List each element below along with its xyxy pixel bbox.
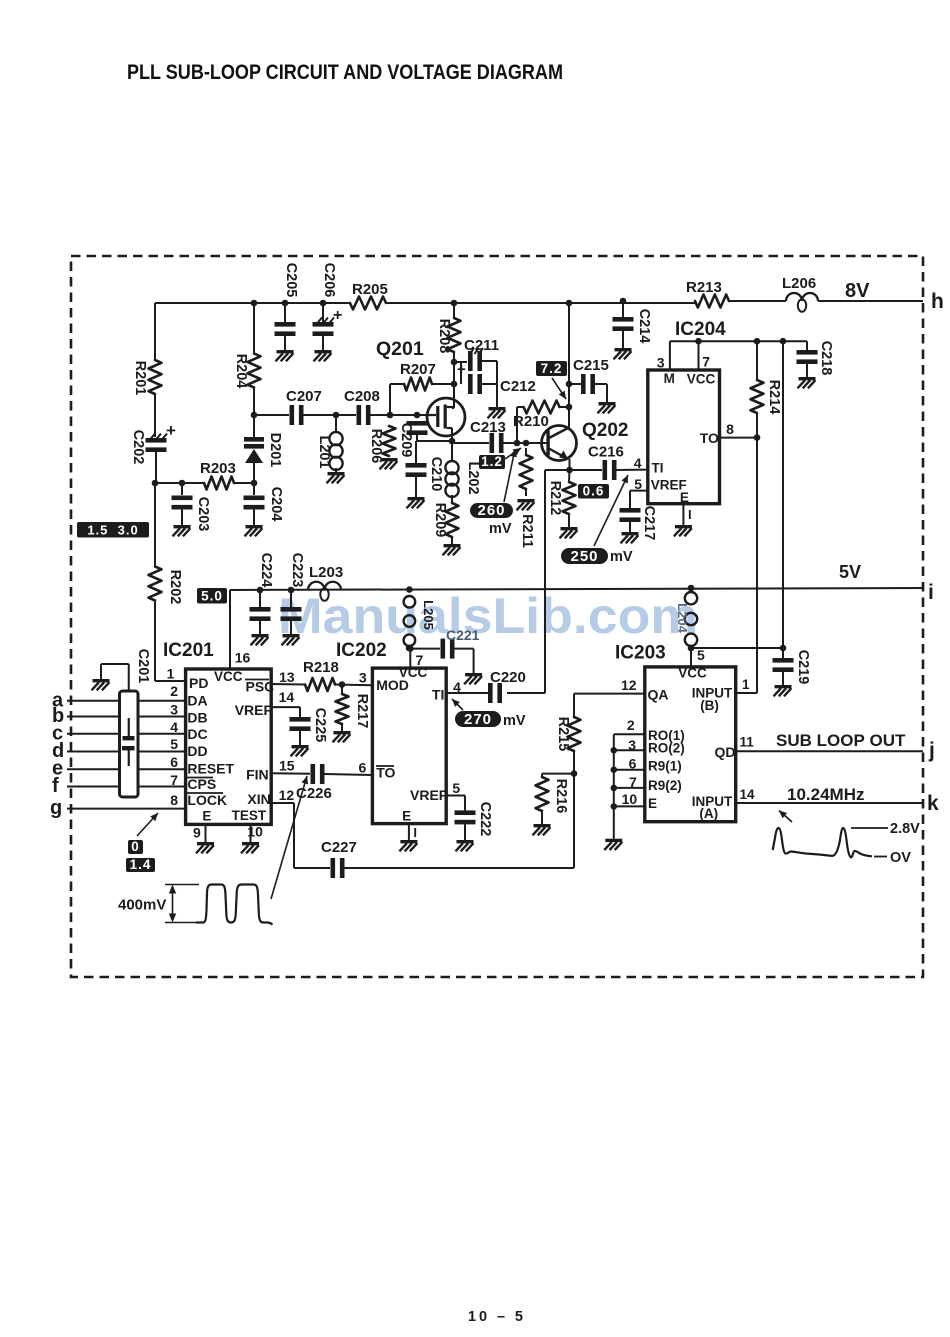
svg-text:C212: C212: [500, 378, 536, 395]
svg-text:E: E: [680, 490, 689, 505]
svg-text:PSC: PSC: [246, 679, 275, 695]
svg-text:mV: mV: [610, 549, 633, 565]
svg-text:2: 2: [627, 717, 635, 733]
svg-text:10: 10: [622, 791, 638, 807]
svg-text:C225: C225: [312, 708, 328, 743]
svg-text:3: 3: [170, 702, 178, 718]
svg-text:5: 5: [170, 736, 178, 752]
svg-text:k: k: [927, 792, 939, 815]
svg-text:C222: C222: [477, 802, 493, 837]
svg-text:1.4: 1.4: [130, 857, 152, 872]
svg-text:1.5 3.0: 1.5 3.0: [87, 522, 138, 537]
svg-text:VCC: VCC: [687, 372, 716, 387]
svg-text:7: 7: [702, 353, 710, 369]
svg-text:E: E: [202, 809, 211, 824]
svg-text:+: +: [333, 307, 342, 324]
svg-text:C221: C221: [446, 627, 480, 643]
svg-text:(A): (A): [699, 806, 718, 821]
svg-text:2.8V: 2.8V: [890, 821, 920, 837]
svg-text:DC: DC: [187, 726, 207, 742]
svg-text:j: j: [928, 739, 935, 762]
svg-text:R9(1): R9(1): [648, 759, 682, 774]
svg-text:3: 3: [359, 669, 367, 685]
svg-text:R212: R212: [547, 481, 563, 516]
svg-text:16: 16: [235, 650, 251, 666]
svg-text:R215: R215: [555, 717, 571, 752]
svg-text:R216: R216: [553, 779, 569, 814]
svg-text:C224: C224: [258, 553, 274, 588]
svg-text:QD: QD: [715, 744, 736, 760]
svg-text:C218: C218: [818, 341, 834, 376]
svg-text:C214: C214: [636, 309, 652, 344]
svg-text:TI: TI: [652, 461, 664, 476]
svg-text:C204: C204: [268, 487, 284, 522]
svg-text:C219: C219: [795, 650, 811, 685]
svg-text:6: 6: [170, 754, 178, 770]
svg-text:R207: R207: [400, 361, 436, 378]
svg-text:C206: C206: [321, 263, 337, 298]
svg-text:DB: DB: [187, 710, 207, 726]
svg-text:1: 1: [167, 666, 175, 682]
svg-text:VREF: VREF: [410, 787, 448, 803]
svg-text:R208: R208: [436, 319, 452, 354]
svg-text:(B): (B): [700, 698, 719, 713]
svg-text:PD: PD: [189, 675, 208, 691]
svg-text:FIN: FIN: [246, 767, 269, 783]
svg-text:R211: R211: [519, 514, 535, 548]
svg-text:DD: DD: [187, 743, 207, 759]
svg-text:mV: mV: [489, 521, 512, 537]
svg-text:C203: C203: [195, 497, 211, 532]
svg-text:Q201: Q201: [376, 338, 424, 360]
svg-text:C207: C207: [286, 388, 322, 405]
svg-text:8: 8: [170, 792, 178, 808]
svg-text:mV: mV: [503, 713, 526, 729]
svg-text:XIN: XIN: [247, 791, 270, 807]
svg-text:+: +: [166, 421, 176, 440]
svg-text:R203: R203: [200, 460, 236, 477]
svg-text:4: 4: [453, 679, 461, 695]
svg-text:12: 12: [621, 677, 637, 693]
svg-text:L203: L203: [309, 564, 343, 581]
svg-text:250: 250: [570, 548, 598, 565]
svg-text:C201: C201: [135, 649, 151, 684]
svg-text:R218: R218: [303, 659, 339, 676]
svg-text:C216: C216: [588, 444, 624, 461]
svg-text:8V: 8V: [845, 280, 870, 302]
svg-text:L206: L206: [782, 275, 816, 292]
svg-text:R210: R210: [513, 413, 549, 430]
svg-text:7: 7: [416, 652, 424, 668]
svg-text:I: I: [688, 507, 692, 522]
svg-text:5: 5: [697, 647, 705, 663]
svg-text:IC204: IC204: [675, 319, 726, 340]
svg-text:R9(2): R9(2): [648, 778, 682, 793]
svg-text:260: 260: [477, 502, 505, 519]
svg-text:C217: C217: [641, 506, 657, 541]
svg-text:VCC: VCC: [214, 669, 243, 684]
svg-text:C213: C213: [470, 419, 506, 436]
svg-text:L205: L205: [421, 600, 436, 630]
svg-text:1: 1: [742, 677, 750, 692]
svg-text:R204: R204: [233, 354, 249, 389]
svg-text:13: 13: [279, 669, 295, 685]
svg-text:9: 9: [193, 824, 201, 840]
svg-text:3: 3: [657, 355, 665, 371]
svg-text:5.0: 5.0: [201, 588, 223, 603]
svg-text:VREF: VREF: [235, 702, 273, 718]
svg-text:RO(2): RO(2): [648, 741, 685, 756]
svg-text:14: 14: [279, 689, 295, 705]
svg-text:TI: TI: [432, 687, 444, 703]
svg-text:L201: L201: [316, 435, 332, 468]
svg-text:IC202: IC202: [336, 640, 387, 661]
svg-text:C220: C220: [490, 669, 526, 686]
svg-text:270: 270: [464, 711, 492, 728]
svg-text:+: +: [457, 361, 466, 378]
svg-text:0: 0: [131, 839, 140, 854]
svg-text:L204: L204: [675, 603, 690, 633]
svg-text:CPS: CPS: [187, 776, 216, 792]
svg-text:VCC: VCC: [678, 665, 707, 680]
svg-text:TO: TO: [700, 430, 719, 446]
svg-text:5V: 5V: [839, 562, 861, 582]
svg-text:Q202: Q202: [582, 420, 628, 441]
svg-text:SUB LOOP OUT: SUB LOOP OUT: [776, 731, 906, 750]
svg-text:5: 5: [452, 780, 460, 796]
svg-text:L202: L202: [465, 461, 481, 494]
svg-text:C202: C202: [130, 430, 146, 465]
svg-text:10.24MHz: 10.24MHz: [787, 785, 864, 804]
svg-text:4: 4: [170, 719, 178, 735]
svg-text:E: E: [402, 809, 411, 824]
svg-text:R209: R209: [432, 503, 448, 538]
svg-text:R205: R205: [352, 281, 388, 298]
svg-text:R217: R217: [354, 694, 370, 729]
svg-text:14: 14: [740, 787, 756, 802]
svg-text:C210: C210: [428, 457, 444, 492]
svg-text:C205: C205: [283, 263, 299, 298]
svg-text:2: 2: [170, 683, 178, 699]
svg-text:IC201: IC201: [163, 640, 214, 661]
svg-text:LOCK: LOCK: [187, 792, 227, 808]
svg-text:E: E: [648, 796, 657, 811]
svg-text:12: 12: [279, 787, 295, 803]
svg-text:C227: C227: [321, 839, 357, 856]
svg-text:D201: D201: [267, 433, 283, 468]
svg-text:1.2: 1.2: [481, 454, 503, 469]
svg-text:C223: C223: [289, 553, 305, 588]
svg-text:C209: C209: [398, 423, 414, 458]
svg-text:TEST: TEST: [232, 808, 267, 823]
svg-text:C215: C215: [573, 357, 609, 374]
svg-text:R201: R201: [132, 361, 148, 396]
svg-text:QA: QA: [648, 686, 669, 702]
svg-text:7.2: 7.2: [541, 361, 563, 376]
svg-text:R214: R214: [766, 380, 782, 415]
svg-text:h: h: [931, 290, 944, 313]
svg-text:PLL SUB-LOOP CIRCUIT AND VOLTA: PLL SUB-LOOP CIRCUIT AND VOLTAGE DIAGRAM: [127, 60, 563, 84]
svg-text:R202: R202: [167, 570, 183, 605]
svg-text:DA: DA: [187, 693, 207, 709]
svg-text:6: 6: [359, 760, 367, 776]
svg-text:5: 5: [634, 476, 642, 492]
svg-text:RESET: RESET: [187, 761, 234, 777]
svg-text:i: i: [928, 581, 934, 604]
svg-text:C208: C208: [344, 388, 380, 405]
svg-text:8: 8: [726, 421, 734, 437]
svg-text:f: f: [52, 775, 59, 797]
svg-text:M: M: [664, 371, 675, 386]
svg-text:0.6: 0.6: [583, 483, 605, 498]
svg-text:g: g: [50, 797, 62, 819]
svg-text:11: 11: [740, 734, 755, 749]
svg-text:OV: OV: [890, 850, 911, 866]
svg-text:15: 15: [279, 758, 295, 774]
svg-text:I: I: [413, 825, 417, 840]
svg-text:400mV: 400mV: [118, 897, 166, 914]
svg-text:ManualsLib.com: ManualsLib.com: [278, 588, 698, 644]
svg-text:R213: R213: [686, 279, 722, 296]
svg-text:IC203: IC203: [615, 643, 666, 664]
svg-text:R206: R206: [368, 429, 384, 464]
svg-text:4: 4: [634, 455, 642, 471]
